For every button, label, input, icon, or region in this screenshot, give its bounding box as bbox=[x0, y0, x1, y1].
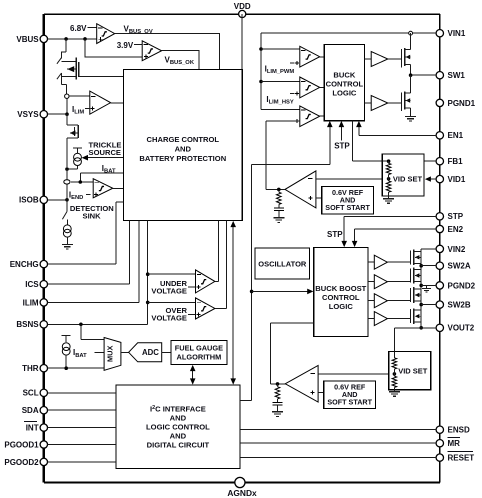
pin VIN2 bbox=[436, 245, 443, 252]
svg-text:LOGIC: LOGIC bbox=[332, 88, 357, 97]
transistor buck-boost M1 bbox=[410, 250, 412, 264]
pin VOUT2 bbox=[436, 324, 443, 331]
comparator OVER VOLTAGE bbox=[196, 298, 215, 319]
driver buck-boost 4 bbox=[368, 318, 374, 320]
svg-text:ICS: ICS bbox=[25, 280, 39, 289]
svg-text:SDA: SDA bbox=[22, 406, 39, 415]
wire VBUS_OV output bbox=[115, 34, 220, 70]
wire THR bbox=[47, 367, 104, 369]
node IEND minus bbox=[71, 181, 93, 183]
driver buck1 high bbox=[365, 58, 372, 60]
wire ENSD bbox=[240, 429, 436, 431]
transistor buck-boost M4 bbox=[410, 309, 412, 323]
block CHARGE CONTROL AND BATTERY PROTECTION bbox=[123, 69, 242, 220]
wire STP label arrow bbox=[340, 127, 342, 140]
svg-text:VOLTAGE: VOLTAGE bbox=[151, 287, 187, 296]
pin PGOOD1 bbox=[40, 441, 47, 448]
wire to buck-boost logic (arrow) bbox=[252, 290, 308, 292]
svg-text:INT: INT bbox=[26, 424, 39, 433]
wire amp1 minus to divider bbox=[316, 178, 389, 180]
wire VBUS to 3.9V comp plus bbox=[85, 39, 142, 57]
wire ADC to fuel gauge bbox=[162, 351, 171, 353]
wire INT bbox=[47, 427, 116, 429]
pin BSNS bbox=[40, 321, 47, 328]
wire comparator input riser bbox=[261, 33, 300, 109]
node ISOB junction bbox=[47, 199, 67, 201]
node ILIM_PWM tap bbox=[259, 47, 263, 51]
wire VDD drop to charge block bbox=[241, 14, 243, 69]
transistor buck-boost M2 bbox=[410, 269, 412, 283]
pin SW2B bbox=[436, 301, 443, 308]
pin SDA bbox=[40, 407, 47, 414]
wire UV minus bbox=[148, 273, 196, 275]
pin VSYS bbox=[40, 111, 47, 118]
driver buck-boost 1 bbox=[368, 261, 374, 263]
node comp2 bbox=[276, 382, 280, 386]
wire VID1 arrow bbox=[430, 178, 436, 180]
wire SW2B bbox=[419, 303, 423, 307]
svg-text:SINK: SINK bbox=[83, 211, 102, 220]
svg-text:VIN1: VIN1 bbox=[448, 29, 466, 38]
resistor divider VID1 bbox=[382, 160, 388, 162]
wire VBUS to comparators bbox=[47, 38, 96, 40]
svg-text:STP: STP bbox=[334, 142, 350, 151]
comparator ILIM_PWM bbox=[261, 48, 300, 50]
ground comp1 bbox=[273, 218, 284, 223]
wire amp1 plus bbox=[316, 197, 322, 199]
svg-text:PGOOD2: PGOOD2 bbox=[4, 458, 39, 467]
ground VID1 bbox=[383, 199, 394, 204]
wire charge-logic bus (bidirectional) bbox=[232, 227, 234, 379]
pin THR bbox=[40, 365, 47, 372]
svg-text:VIN2: VIN2 bbox=[448, 245, 466, 254]
resistor comp1 bbox=[276, 192, 281, 204]
wire VBUS_OK output bbox=[162, 51, 199, 70]
wire sense to ILIM comp bbox=[69, 95, 90, 97]
wire comp3 plus from error amp bbox=[266, 121, 300, 189]
node VBUS-B bbox=[83, 37, 87, 41]
svg-text:VOUT2: VOUT2 bbox=[448, 324, 475, 333]
svg-text:ENSD: ENSD bbox=[448, 426, 470, 435]
pin VID1 bbox=[436, 175, 443, 182]
block BUCK BOOST CONTROL LOGIC bbox=[314, 247, 368, 336]
svg-text:MR: MR bbox=[448, 439, 461, 448]
error amp buck1 bbox=[285, 171, 316, 208]
pin VDD bbox=[239, 10, 246, 17]
resistor comp2 bbox=[275, 387, 280, 399]
svg-text:SW2A: SW2A bbox=[448, 262, 471, 271]
wire MR bbox=[240, 442, 436, 444]
comparator IEND bbox=[93, 179, 113, 198]
wire gate 4 bbox=[387, 318, 410, 320]
comparator VBUS_OV (6.8V) bbox=[97, 24, 115, 44]
comparator UNDER VOLTAGE bbox=[196, 270, 215, 293]
svg-text:SOFT START: SOFT START bbox=[327, 397, 372, 406]
pin STP bbox=[436, 213, 443, 220]
pin MR bbox=[436, 440, 443, 447]
wire STP pin bbox=[344, 216, 436, 241]
capacitor comp1 bbox=[274, 208, 284, 211]
resistor divider VID2 bbox=[392, 358, 397, 369]
svg-text:PGND1: PGND1 bbox=[448, 99, 476, 108]
pin RESET bbox=[436, 454, 443, 461]
wire comp network buck1 bbox=[266, 188, 285, 190]
svg-text:PGOOD1: PGOOD1 bbox=[4, 440, 39, 449]
wire BSNS to MUX bbox=[81, 324, 104, 339]
ground comp2 bbox=[272, 412, 283, 417]
pin AGNDx bbox=[235, 477, 245, 487]
current source IBAT (fuel gauge) bbox=[62, 336, 71, 343]
wire IBAT to MUX bbox=[95, 351, 105, 353]
svg-text:6.8V: 6.8V bbox=[70, 24, 87, 33]
pin FB1 bbox=[436, 158, 443, 165]
wire amp2 plus bbox=[318, 392, 324, 394]
svg-text:ALGORITHM: ALGORITHM bbox=[177, 353, 222, 362]
wire comp3 out bbox=[320, 115, 325, 117]
svg-text:PGND2: PGND2 bbox=[448, 281, 476, 290]
svg-text:AND: AND bbox=[175, 145, 192, 154]
node trickle join bbox=[65, 167, 69, 171]
wire EN2 bbox=[355, 229, 437, 241]
block 0.6V REF AND SOFT START buck-boost bbox=[324, 381, 376, 409]
svg-text:VDD: VDD bbox=[234, 2, 251, 11]
wire IEND output bbox=[113, 187, 124, 189]
node ILIM_HSY tap bbox=[259, 80, 263, 84]
transistor buck1 NMOS bbox=[388, 102, 402, 104]
wire VIN1 top rail bbox=[261, 32, 409, 34]
pin ISOB bbox=[40, 196, 47, 203]
transistor trickle NMOS bbox=[67, 114, 78, 125]
pin VBUS bbox=[40, 35, 47, 42]
capacitor comp2 bbox=[273, 402, 283, 405]
wire buck-boost FET rail bbox=[420, 249, 422, 328]
svg-text:I2C INTERFACE: I2C INTERFACE bbox=[150, 405, 206, 414]
svg-text:ENCHG: ENCHG bbox=[10, 260, 39, 269]
pin EN2 bbox=[436, 225, 443, 232]
wire SCL bbox=[47, 392, 116, 394]
svg-text:BUCK BOOST: BUCK BOOST bbox=[315, 284, 366, 293]
pin ENSD bbox=[436, 426, 443, 433]
transistor buck-boost M3 bbox=[410, 288, 412, 302]
wire RESET bbox=[240, 457, 436, 459]
wire VIN2 bbox=[421, 248, 436, 250]
pin SCL bbox=[40, 389, 47, 396]
svg-text:AND: AND bbox=[170, 432, 187, 441]
node THR-IBAT bbox=[64, 366, 68, 370]
node UV tap bbox=[146, 272, 150, 276]
svg-text:CHARGE CONTROL: CHARGE CONTROL bbox=[147, 135, 220, 144]
driver buck-boost 3 bbox=[368, 300, 374, 302]
adc ADC bbox=[129, 343, 162, 362]
wire MUX to ADC bbox=[121, 351, 129, 353]
block VID SET buck-boost bbox=[389, 352, 431, 390]
pin PGND1 bbox=[436, 99, 443, 106]
svg-text:3.9V: 3.9V bbox=[117, 41, 134, 50]
wire PGND2 + mini ground bbox=[419, 284, 423, 288]
svg-text:BATTERY PROTECTION: BATTERY PROTECTION bbox=[139, 154, 226, 163]
wire FB1 drop bbox=[351, 121, 353, 162]
svg-text:ISOB: ISOB bbox=[19, 196, 39, 205]
wire SW1 bbox=[411, 74, 437, 76]
svg-text:AND: AND bbox=[170, 414, 187, 423]
wire STP riser to buck logic bbox=[240, 127, 330, 401]
switch detection bbox=[62, 200, 67, 220]
pin SW1 bbox=[436, 72, 443, 79]
wire EN1 bbox=[359, 127, 437, 135]
wire gate 1 bbox=[387, 261, 410, 263]
wire comp1 out bbox=[320, 56, 325, 58]
svg-text:VOLTAGE: VOLTAGE bbox=[151, 314, 187, 323]
node BSNS-MUX tap bbox=[79, 323, 83, 327]
node osc line junction bbox=[250, 290, 254, 294]
svg-text:RESET: RESET bbox=[448, 454, 475, 463]
wire fuel gauge to I2C (bidirectional) bbox=[192, 371, 194, 380]
wire gate 3 bbox=[387, 300, 410, 302]
wire ILIM comp output bbox=[111, 102, 124, 104]
pin VIN1 bbox=[436, 30, 443, 37]
wire trickle control from block bbox=[88, 157, 123, 159]
comparator ILIM bbox=[90, 91, 111, 114]
node VSYS bbox=[65, 112, 69, 116]
svg-text:CONTROL: CONTROL bbox=[326, 79, 364, 88]
svg-text:VBUS: VBUS bbox=[16, 35, 39, 44]
svg-text:MUX: MUX bbox=[106, 346, 115, 362]
comparator VBUS_OK (3.9V) bbox=[142, 41, 161, 61]
wire ICS bbox=[47, 221, 129, 285]
driver buck1 low bbox=[365, 102, 372, 104]
node VBUS-A bbox=[64, 37, 68, 41]
block I2C INTERFACE AND LOGIC CONTROL AND DIGITAL CIRCUIT bbox=[116, 385, 240, 468]
driver buck-boost 2 bbox=[368, 281, 374, 283]
svg-text:STP: STP bbox=[327, 230, 343, 239]
svg-text:BUCK: BUCK bbox=[333, 70, 355, 79]
svg-text:VID1: VID1 bbox=[448, 175, 466, 184]
block FUEL GAUGE ALGORITHM bbox=[171, 340, 227, 364]
transistor isolation PMOS pair (VBUS) bbox=[62, 39, 67, 59]
pin ENCHG bbox=[40, 260, 47, 267]
svg-text:SOFT START: SOFT START bbox=[325, 203, 370, 212]
wire ILIM bbox=[47, 221, 139, 303]
pin ILIM bbox=[40, 299, 47, 306]
current source TRICKLE SOURCE bbox=[73, 148, 82, 153]
wire IBAT to block bbox=[80, 173, 123, 182]
svg-text:LOGIC: LOGIC bbox=[329, 302, 354, 311]
wire BSNS riser bbox=[47, 221, 147, 325]
svg-text:DIGITAL CIRCUIT: DIGITAL CIRCUIT bbox=[147, 441, 210, 450]
svg-text:ILIM: ILIM bbox=[23, 298, 39, 307]
wire VSYS node chain bbox=[66, 98, 68, 112]
comparator ILIM_HSY bbox=[261, 81, 300, 83]
svg-text:LOGIC CONTROL: LOGIC CONTROL bbox=[146, 423, 210, 432]
svg-text:FB1: FB1 bbox=[448, 157, 464, 166]
error amp buck-boost bbox=[285, 366, 318, 403]
current source detection sink bbox=[66, 220, 68, 225]
pin EN1 bbox=[436, 132, 443, 139]
wire SW2A bbox=[419, 264, 423, 268]
wire OV minus bbox=[148, 301, 196, 303]
wire OV output bbox=[215, 221, 227, 309]
svg-text:CONTROL: CONTROL bbox=[322, 293, 360, 302]
node ILIM sense (open) bbox=[65, 94, 69, 98]
svg-text:SCL: SCL bbox=[23, 389, 39, 398]
wire buck-boost comp loop bbox=[270, 323, 313, 384]
svg-text:BSNS: BSNS bbox=[16, 320, 39, 329]
svg-text:EN2: EN2 bbox=[448, 225, 464, 234]
wire UV output bbox=[215, 221, 219, 282]
svg-text:EN1: EN1 bbox=[448, 131, 464, 140]
wire PGOOD2 bbox=[47, 461, 116, 463]
svg-text:SOURCE: SOURCE bbox=[89, 148, 122, 157]
svg-text:OSCILLATOR: OSCILLATOR bbox=[258, 260, 307, 269]
svg-text:THR: THR bbox=[22, 364, 39, 373]
svg-text:VSYS: VSYS bbox=[17, 110, 39, 119]
wire PGOOD1 bbox=[47, 444, 116, 446]
svg-text:SW2B: SW2B bbox=[448, 301, 471, 310]
block OSCILLATOR bbox=[255, 248, 310, 279]
wire sense oval section bbox=[66, 169, 68, 200]
ground VID2 bbox=[389, 392, 400, 397]
wire SDA bbox=[47, 409, 116, 411]
pin ICS bbox=[40, 281, 47, 288]
comparator PWM bbox=[300, 106, 320, 127]
svg-text:AGNDx: AGNDx bbox=[227, 488, 257, 498]
node comp1 bbox=[277, 188, 281, 192]
svg-text:VID SET: VID SET bbox=[393, 174, 423, 183]
wire amp2 minus to divider bbox=[318, 373, 394, 375]
transistor buck1 PMOS bbox=[388, 58, 402, 60]
block BUCK CONTROL LOGIC bbox=[324, 45, 364, 121]
wire VOUT2 bbox=[419, 326, 423, 330]
wire FET source to charge block bbox=[79, 75, 124, 77]
svg-text:STP: STP bbox=[448, 212, 464, 221]
block VID SET buck1 bbox=[382, 154, 424, 196]
block 0.6V REF AND SOFT START buck1 bbox=[322, 186, 374, 214]
svg-text:VID SET: VID SET bbox=[398, 366, 428, 375]
IC boundary frame bbox=[44, 13, 440, 15]
wire VOUT2 feedback drop bbox=[394, 328, 421, 352]
svg-text:FUEL GAUGE: FUEL GAUGE bbox=[175, 344, 223, 353]
mux MUX bbox=[104, 338, 121, 371]
wire gate 2 bbox=[387, 281, 410, 283]
pin SW2A bbox=[436, 262, 443, 269]
ground detection sink bbox=[62, 244, 73, 249]
svg-text:ADC: ADC bbox=[142, 348, 159, 357]
wire ENCHG bbox=[47, 202, 123, 264]
ground buck1 bbox=[405, 116, 416, 121]
svg-text:SW1: SW1 bbox=[448, 71, 466, 80]
pin INT bbox=[40, 424, 47, 431]
wire FB1 bbox=[352, 160, 436, 162]
pin PGOOD2 bbox=[40, 458, 47, 465]
node SW1 bbox=[409, 73, 413, 77]
pin PGND2 bbox=[436, 282, 443, 289]
node OV tap bbox=[146, 301, 150, 305]
wire comp2 out bbox=[320, 86, 325, 88]
